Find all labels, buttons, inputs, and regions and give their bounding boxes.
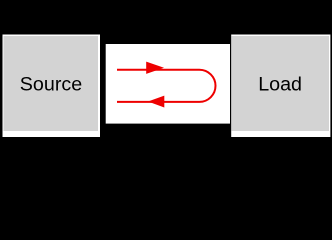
arrowhead right (top) [146,62,164,74]
load box [232,36,330,131]
arrowhead left (bottom) [148,96,164,108]
white panel left [3,35,101,138]
white panel right [231,35,330,138]
white center window [106,44,230,124]
source box [4,36,99,131]
arrow loop wire [117,70,216,102]
svg-text:Source: Source [20,74,82,96]
svg-text:Load: Load [258,74,302,96]
